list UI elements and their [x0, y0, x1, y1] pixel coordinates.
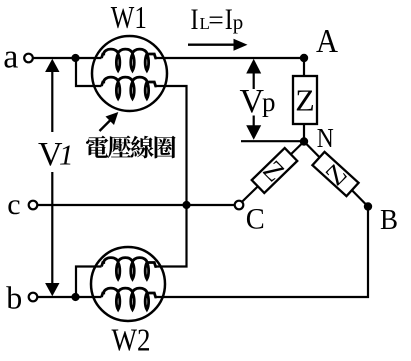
svg-text:W2: W2	[112, 322, 151, 358]
svg-text:A: A	[316, 23, 338, 60]
svg-text:N: N	[317, 122, 334, 153]
svg-text:b: b	[6, 280, 22, 316]
wire node N to load C	[242, 142, 304, 202]
node B	[364, 202, 372, 210]
wire W1 voltage coil to vertical bus	[157, 86, 187, 267]
wire a-line left segment	[33, 57, 102, 59]
voltage-coil annotation 電壓線圈	[86, 136, 176, 159]
svg-text:p: p	[262, 87, 276, 117]
svg-text:p: p	[233, 10, 244, 34]
svg-text:V: V	[240, 83, 265, 120]
wattmeter W2	[91, 247, 165, 321]
svg-text:I: I	[191, 3, 199, 36]
wire node N to node B	[304, 142, 368, 207]
svg-text:I: I	[225, 3, 233, 36]
V1 arrowhead up	[45, 59, 59, 72]
terminal C open circle	[235, 201, 244, 210]
impedance Z (phase C) body	[252, 148, 298, 193]
terminal a	[24, 54, 33, 63]
junction on c-line	[182, 201, 190, 209]
wire node A to impedance Z	[303, 58, 305, 76]
wire a-line right segment to node A	[157, 57, 305, 59]
Vp measurement arrow shaft	[253, 72, 255, 127]
wire b-line left segment	[38, 296, 102, 298]
V1 measurement arrow shaft	[51, 70, 53, 285]
svg-text:C: C	[246, 203, 265, 236]
terminal c	[29, 201, 38, 210]
V1 arrowhead down	[45, 283, 59, 296]
impedance Z (phase C) value label	[257, 155, 290, 188]
W2 current coil	[102, 288, 157, 310]
wire drop from a-junction to W1 voltage coil	[76, 60, 102, 86]
wire rise from b-junction to W2 voltage coil	[76, 267, 102, 296]
junction on b-line	[71, 293, 79, 301]
svg-text:a: a	[3, 39, 18, 76]
impedance Z (phase B) value label	[320, 158, 353, 191]
W2 voltage coil	[102, 258, 157, 280]
node N	[300, 137, 308, 145]
W1 current coil	[102, 49, 157, 71]
terminal b	[29, 293, 38, 302]
svg-text:Z: Z	[295, 83, 315, 118]
current direction arrow	[188, 44, 235, 46]
svg-text:=: =	[208, 5, 224, 35]
wire c-line	[38, 204, 235, 206]
wattmeter W1	[92, 36, 167, 111]
node A	[300, 54, 308, 62]
wire impedance Z to node N	[303, 124, 305, 142]
voltage-coil pointer arrow	[100, 121, 111, 132]
W1 voltage coil	[102, 77, 157, 99]
svg-text:W1: W1	[111, 0, 147, 35]
wire b-line right segment and riser to node B	[157, 208, 369, 297]
svg-text:1: 1	[59, 140, 74, 172]
impedance Z (phase A) body	[293, 76, 317, 124]
svg-text:B: B	[380, 205, 398, 236]
junction on a-line	[71, 54, 79, 62]
Vp arrowhead down	[246, 125, 261, 140]
impedance Z (phase B) body	[312, 152, 358, 196]
Vp arrowhead up	[246, 59, 261, 74]
svg-text:c: c	[7, 188, 20, 221]
Vp bottom tick	[241, 140, 301, 142]
